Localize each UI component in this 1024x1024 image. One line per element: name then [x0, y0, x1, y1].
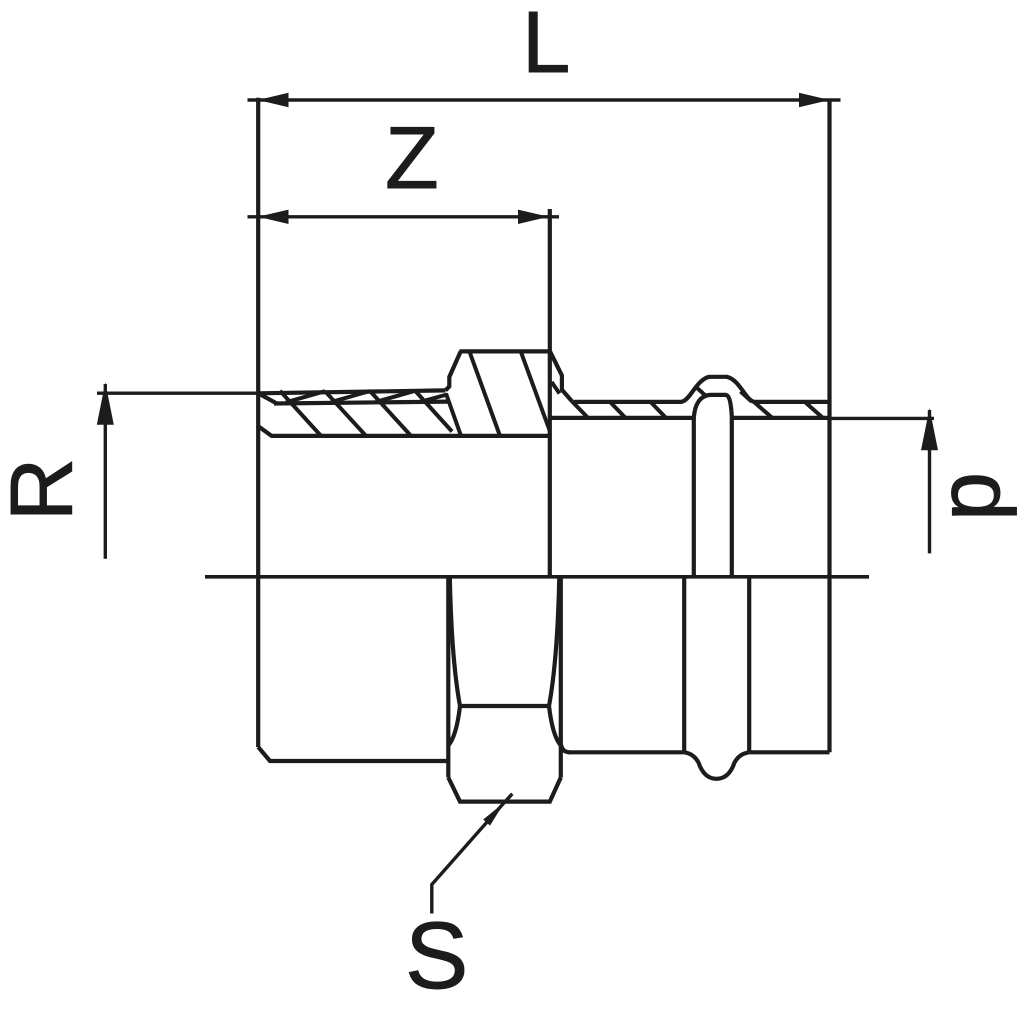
- svg-text:S: S: [405, 903, 468, 1009]
- dimension L : dimension line: [248, 98, 841, 101]
- lower hex outer right edge: [559, 577, 563, 778]
- thread entry chamfer: [258, 393, 276, 403]
- bead outer bump: [681, 377, 755, 402]
- thread flank lines: [286, 391, 447, 403]
- lower hex facet curve left: [450, 577, 460, 706]
- svg-text:R: R: [0, 458, 90, 522]
- dimension R : arrowhead: [97, 382, 114, 424]
- extension line right / right end face (x=829.5): [827, 99, 831, 752]
- sleeve inner line left of bead: [550, 416, 694, 420]
- hatch sleeve zone: [573, 387, 824, 419]
- bead inner wall left (section): [692, 418, 696, 577]
- lower hex facet line: [460, 704, 549, 708]
- lower half: thread part outline (external view): [258, 747, 448, 761]
- dimension Z : right arrowhead: [518, 210, 549, 224]
- lower bead tangent line left: [682, 577, 686, 753]
- lower bead tangent line right: [747, 577, 751, 753]
- thread root line: [274, 402, 449, 404]
- hex right shoulder to sleeve (section): [550, 351, 573, 402]
- dimension R : reference line: [97, 392, 263, 395]
- sleeve outer line left of bead: [574, 400, 682, 404]
- hatch hex zone: [446, 353, 560, 436]
- leader S arrowhead: [483, 802, 504, 825]
- extension line left (x=258, also left end face of fitting): [256, 98, 260, 747]
- bead inner bump: [694, 395, 732, 418]
- leader line S: [432, 794, 513, 914]
- svg-text:L: L: [522, 0, 570, 91]
- bore entry chamfer: [257, 425, 272, 436]
- dimension L : left arrowhead: [258, 93, 289, 107]
- lower hex chamfer arc right: [549, 706, 561, 746]
- lower hex bottom with corner chamfers: [448, 778, 561, 802]
- dimension Z : dimension line: [248, 215, 560, 218]
- hatch thread zone: [280, 391, 452, 436]
- lower hex chamfer arc left: [448, 706, 460, 746]
- lower hex outer left edge: [446, 577, 450, 778]
- dimension d : arrowhead: [921, 408, 938, 450]
- centerline / axis: [205, 575, 869, 579]
- hex left shoulder (section): [446, 351, 461, 390]
- lower bead bump: [684, 752, 749, 779]
- svg-text:Z: Z: [385, 108, 439, 207]
- lower sleeve fillet at hex: [561, 743, 570, 752]
- bead inner wall right (section): [730, 418, 734, 577]
- lower sleeve bottom line right of bead: [749, 750, 829, 754]
- hex top flat (section): [460, 349, 552, 353]
- dimension Z : left arrowhead: [258, 210, 289, 224]
- dimension R : arrow shaft: [104, 384, 107, 559]
- dimension d : reference line: [830, 417, 935, 420]
- svg-text:d: d: [934, 472, 1024, 521]
- dimension L : right arrowhead: [799, 93, 830, 107]
- bore line left part: [271, 434, 550, 438]
- sleeve outer line right of bead: [754, 400, 830, 404]
- lower hex facet curve right: [549, 577, 559, 706]
- dimension d : arrow shaft: [928, 410, 931, 553]
- lower sleeve bottom line left of bead: [568, 750, 684, 754]
- sleeve inner line right of bead: [732, 416, 830, 420]
- thread crest line (tapered, section top): [258, 390, 446, 393]
- extension line Z right / internal step face (x=550): [548, 209, 552, 577]
